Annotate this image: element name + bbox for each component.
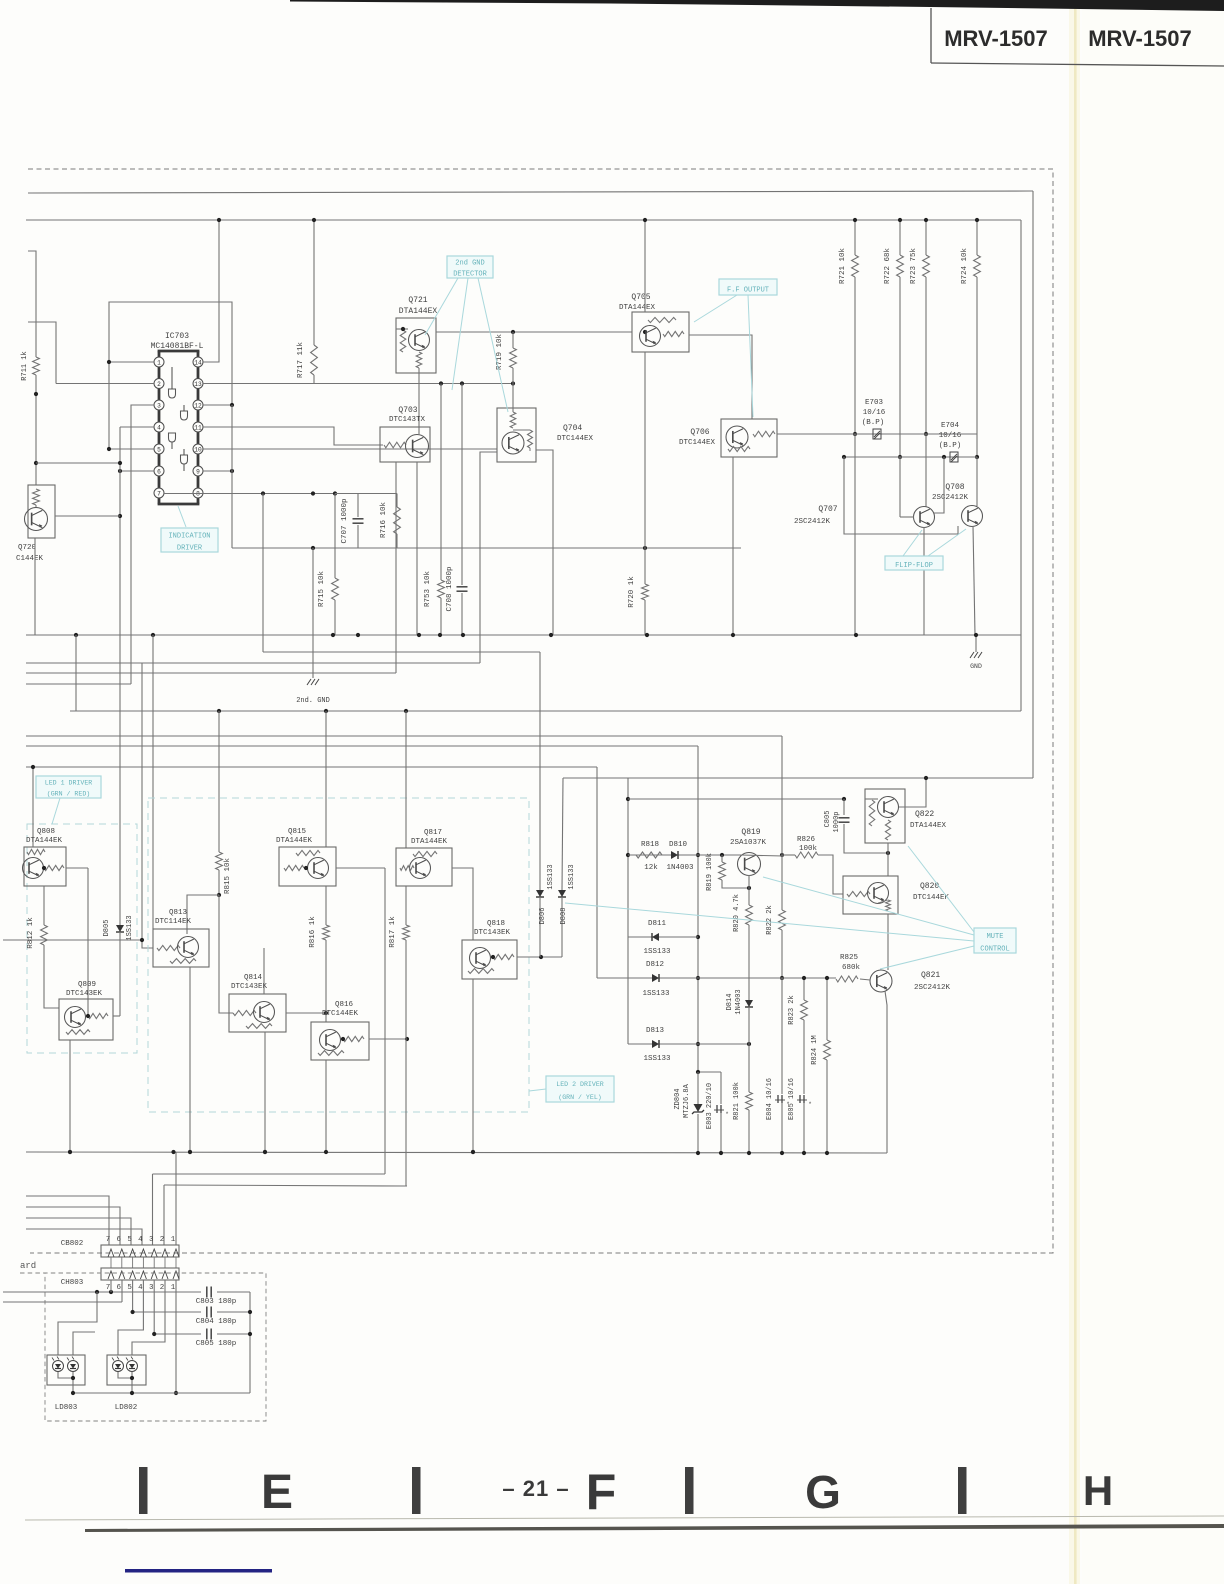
bus y652 [263, 651, 540, 653]
resistor R722 68k [884, 218, 903, 284]
top scan edge black wedge [290, 0, 1224, 11]
IC703 box outline [109, 302, 232, 449]
svg-text:12k: 12k [644, 864, 658, 872]
svg-text:R820 4.7k: R820 4.7k [733, 894, 741, 932]
svg-text:2: 2 [157, 381, 161, 388]
resistor R720 1k [628, 576, 648, 635]
transistor Q721 [409, 330, 430, 351]
gnd detector callout [447, 256, 493, 279]
svg-text:D805: D805 [103, 920, 111, 937]
Q707 cross wire [934, 457, 944, 513]
Q708 emitter [973, 526, 975, 635]
svg-text:C144EK: C144EK [16, 555, 44, 563]
wire Q721 to Q705 [436, 330, 647, 334]
Q808 output [66, 867, 88, 869]
Q703 labels [389, 406, 426, 424]
pin2 riser [163, 1185, 165, 1245]
led2 dashed box [148, 798, 529, 1112]
svg-text:DTA144EX: DTA144EX [619, 304, 656, 312]
vert x628 [626, 778, 630, 1044]
Q809 emitter drop [68, 1040, 72, 1154]
Q822 emitter res [885, 820, 890, 840]
Q818 emitter res [468, 969, 494, 974]
diode D805 1SS133 [103, 915, 134, 1016]
resistor R723 75k [910, 218, 929, 284]
LED LD803 diodes [52, 1357, 79, 1372]
svg-text:CONTROL: CONTROL [980, 945, 1009, 953]
transistor Q819 [738, 853, 761, 876]
wire pin2 to LD802b [132, 1280, 165, 1355]
inner frame right x1033 [1032, 191, 1034, 778]
transistor Q813 [178, 937, 199, 958]
Q820 emitter res [878, 900, 890, 911]
svg-text:F: F [586, 1464, 617, 1520]
Q820 base res [847, 891, 870, 896]
transistor Q816 box [311, 1022, 369, 1060]
wire Q705 out to Q706 [689, 335, 752, 419]
bottom thin rule [25, 1516, 1224, 1520]
Q708 cross wire [844, 457, 958, 534]
D805 to Q809 [113, 1015, 120, 1017]
wire pin11 to Q703 [203, 427, 383, 445]
Q818 collector drop [471, 979, 475, 1154]
svg-text:Q819: Q819 [741, 828, 760, 837]
svg-text:1: 1 [171, 1284, 176, 1292]
diode D812 [642, 961, 670, 998]
vert x698 column [696, 746, 700, 1072]
pin feed y1229 [26, 1229, 142, 1245]
Q814 base res [233, 1010, 256, 1015]
resistor R823 2k [788, 976, 812, 1152]
bead E704 [939, 422, 962, 462]
svg-text:ard: ard [20, 1261, 36, 1271]
svg-text:5: 5 [157, 446, 161, 453]
board edge text [20, 1261, 36, 1271]
gnd right symbol [970, 635, 982, 670]
zone letter F [586, 1464, 617, 1520]
Q721 emitter res [416, 352, 422, 368]
LED LD803 box [47, 1355, 85, 1385]
wire pin7 pin8 common [164, 491, 397, 495]
Q813 emitter drop [188, 967, 192, 1154]
LED LD802 box [107, 1355, 146, 1385]
gnd detector leaders [425, 278, 508, 412]
svg-text:C708 1000p: C708 1000p [446, 566, 454, 611]
connector link wires [111, 1257, 176, 1268]
R722 drop [898, 277, 902, 517]
diode D806 1SS133 [536, 652, 555, 957]
svg-text:F.F OUTPUT: F.F OUTPUT [727, 286, 769, 294]
svg-text:5: 5 [127, 1284, 132, 1292]
transistor Q720 box [28, 485, 55, 538]
svg-text:7: 7 [106, 1236, 111, 1244]
svg-text:R824 1M: R824 1M [811, 1035, 819, 1064]
transistor Q704 box [497, 408, 536, 462]
Q809 emitter res [66, 1030, 90, 1035]
svg-text:DTA144EX: DTA144EX [399, 307, 438, 316]
transistor Q808 box [24, 765, 66, 886]
Q720 emitter drop [34, 538, 36, 635]
transistor Q814 [254, 1002, 275, 1023]
svg-text:Q704: Q704 [563, 424, 582, 433]
Q720 internal resistor [33, 489, 40, 508]
CB802 label [61, 1240, 84, 1248]
rail y635 dots [74, 633, 978, 637]
svg-text:C805: C805 [824, 811, 832, 828]
svg-text:R721 10k: R721 10k [839, 248, 847, 285]
Q814 output [286, 1011, 328, 1015]
svg-text:12: 12 [194, 402, 202, 409]
capacitor C708 1000p [446, 384, 468, 636]
transistor Q815 [308, 858, 329, 879]
Q808 col drop [87, 868, 89, 1016]
svg-text:DTA144EK: DTA144EK [26, 837, 63, 845]
LD803 label [55, 1404, 78, 1412]
vert x142 drop [3, 663, 153, 948]
svg-text:R717 11k: R717 11k [297, 342, 305, 379]
Q820 emitter down [887, 914, 889, 970]
svg-text:R723 75k: R723 75k [910, 248, 918, 285]
svg-text:R812 1k: R812 1k [27, 917, 35, 949]
svg-text:C707 1000p: C707 1000p [341, 498, 349, 543]
Q707 labels [794, 505, 838, 526]
bottom thick rule [85, 1524, 1224, 1532]
svg-text:DTA144EK: DTA144EK [276, 837, 313, 845]
svg-text:R818: R818 [641, 841, 659, 849]
Q721 down to Q703 [418, 368, 420, 434]
Q721 labels [399, 296, 438, 316]
svg-text:2SC2412K: 2SC2412K [794, 518, 831, 526]
pin2 feed elbow [28, 322, 56, 384]
wire y855 cont [741, 855, 783, 856]
resistor R819 100k [706, 853, 751, 891]
Q815 labels [276, 828, 313, 845]
Q705 right res [663, 331, 684, 336]
rail bottom y711 [70, 710, 1021, 712]
svg-text:1SS133: 1SS133 [643, 1055, 671, 1063]
wire pin1 bottom [174, 1280, 178, 1395]
wire FF row2 [842, 455, 977, 459]
svg-text:MRV-1507: MRV-1507 [944, 26, 1048, 51]
wire pin6 y1302 [3, 1280, 122, 1302]
indication driver callout [161, 528, 218, 552]
flip-flop leaders [903, 529, 966, 556]
svg-text:DTC144EK: DTC144EK [913, 894, 950, 902]
svg-text:E703: E703 [865, 399, 884, 407]
transistor Q808 [23, 858, 44, 879]
cap E803 220/10 [706, 1072, 729, 1152]
bus y767 [26, 766, 597, 768]
resistor R815 10k [216, 711, 232, 895]
svg-text:Q821: Q821 [921, 971, 940, 980]
vertical x120 pin4 feed [118, 427, 122, 922]
svg-text:*: * [725, 1111, 729, 1118]
svg-text:6: 6 [117, 1236, 122, 1244]
svg-text:IC703: IC703 [165, 332, 189, 341]
transistor Q809 box [59, 999, 113, 1040]
svg-text:C803 180p: C803 180p [196, 1298, 237, 1306]
transistor Q816 [320, 1030, 341, 1051]
diode D808 1SS133 [558, 778, 576, 957]
R815 junction [187, 893, 221, 934]
svg-text:E804 10/16: E804 10/16 [766, 1078, 774, 1120]
svg-text:Q817: Q817 [424, 829, 442, 837]
resistor R711 1k [21, 351, 39, 485]
inner frame bottom y778 [563, 777, 1033, 779]
connector CH803 [101, 1268, 179, 1292]
svg-text:D812: D812 [646, 961, 664, 969]
zone tick 4 [958, 1467, 967, 1514]
wire y463 [36, 461, 122, 465]
svg-text:2: 2 [160, 1236, 165, 1244]
svg-text:14: 14 [194, 359, 202, 366]
svg-text:DTC143EK: DTC143EK [66, 990, 103, 998]
Q809 right res [86, 1013, 108, 1018]
wire pin2 feed y1185 [164, 1185, 407, 1186]
Q706 lower res [728, 446, 750, 451]
Q704 labels [557, 424, 594, 443]
svg-text:Q706: Q706 [690, 428, 709, 437]
vert x326 [325, 711, 327, 847]
Q814 emitter drop [263, 1032, 267, 1154]
transistor Q813 box [153, 929, 209, 967]
IC703 gate C [169, 433, 176, 442]
IC703 gate A [169, 389, 176, 398]
diode D810 1N4003 [666, 841, 694, 872]
bus y736 [26, 735, 782, 737]
Q720 output wire [55, 515, 120, 517]
diode D813 line [628, 1042, 751, 1046]
svg-text:Q721: Q721 [408, 296, 427, 305]
svg-text:2SC2412K: 2SC2412K [914, 984, 951, 992]
IC703 pins 14-8 [193, 357, 203, 498]
outer dashed border [28, 169, 1053, 1253]
svg-text:GND: GND [970, 663, 982, 670]
svg-text:11: 11 [194, 424, 202, 431]
svg-text:5: 5 [127, 1236, 132, 1244]
resistor R820 4.7k [733, 875, 752, 994]
led2 driver callout [546, 1076, 614, 1102]
svg-text:DTC144EX: DTC144EX [679, 439, 716, 447]
wire y799 [628, 797, 846, 801]
left feed elbow [28, 251, 36, 357]
diode D813 [643, 1027, 671, 1063]
transistor Q820 [868, 883, 889, 904]
transistor Q703 box [380, 427, 430, 462]
svg-text:1: 1 [157, 359, 161, 366]
svg-text:R826: R826 [797, 836, 816, 844]
svg-text:Q818: Q818 [487, 920, 505, 928]
svg-text:3: 3 [149, 1236, 154, 1244]
vertical x263 drop [262, 494, 264, 653]
LD802 label [115, 1404, 138, 1412]
svg-text:100k: 100k [799, 845, 818, 853]
Q814 labels [231, 974, 268, 991]
svg-text:3: 3 [157, 402, 161, 409]
transistor Q721 box [396, 318, 436, 373]
zone letter H [1083, 1467, 1113, 1514]
vert x597 [596, 767, 598, 978]
indication driver leader [178, 506, 186, 527]
header rule vertical [930, 8, 932, 63]
Q822 base entry [865, 798, 878, 800]
svg-text:1SS133: 1SS133 [547, 864, 555, 889]
book fold cream stripe [1069, 0, 1080, 1584]
wire LD803 left top [58, 1292, 97, 1355]
svg-text:1N4003: 1N4003 [735, 989, 743, 1014]
Q813 emitter res [170, 959, 196, 964]
Q705 labels [619, 293, 656, 312]
svg-text:13: 13 [194, 381, 202, 388]
wire pin10 to Q704 [203, 448, 497, 450]
resistor R812 1k [27, 886, 59, 1008]
svg-text:Q815: Q815 [288, 828, 307, 836]
svg-text:(GRN / RED): (GRN / RED) [47, 791, 91, 798]
pin1 riser [175, 1152, 177, 1245]
wire rail to R717 [312, 218, 316, 345]
Q816 emitter res [318, 1051, 344, 1056]
wire pin5 to C804 [131, 1280, 202, 1314]
svg-text:4: 4 [138, 1284, 143, 1292]
wire pin5 elbow [107, 447, 154, 451]
bus y663 [26, 662, 480, 664]
resistor R821 100k [733, 1044, 752, 1152]
resistor R824 1M [811, 976, 830, 1152]
resistor R715 10k [318, 494, 338, 636]
IC703 pins 1-7 [154, 357, 164, 498]
IC703 gate B [181, 405, 188, 420]
Q819 labels [730, 828, 767, 847]
svg-text:DTC143EK: DTC143EK [231, 983, 268, 991]
svg-text:R817 1k: R817 1k [389, 916, 397, 948]
svg-text:1SS133: 1SS133 [126, 915, 134, 940]
svg-text:1: 1 [171, 1236, 176, 1244]
svg-text:DTC143EK: DTC143EK [474, 929, 511, 937]
flip-flop callout [885, 556, 943, 570]
cap E805 label [788, 1078, 796, 1120]
svg-text:C804 180p: C804 180p [196, 1318, 237, 1326]
wire pin13 to R719 bottom [203, 381, 515, 385]
resistor R826 100k [795, 836, 818, 858]
led1 driver callout [36, 776, 101, 798]
wire pin4 elbow [120, 426, 154, 428]
svg-text:1SS133: 1SS133 [643, 948, 671, 956]
svg-text:(B.P): (B.P) [939, 442, 962, 450]
next page blue line [125, 1569, 272, 1573]
led1 driver leader [52, 798, 60, 824]
IC703 internal stubs [172, 367, 184, 471]
wire y777 top [563, 777, 1033, 779]
resistor R724 10k [961, 218, 980, 284]
svg-text:1SS133: 1SS133 [568, 864, 576, 889]
Q817 output [452, 868, 473, 940]
svg-text:D806: D806 [539, 908, 547, 925]
svg-text:CH803: CH803 [61, 1279, 84, 1287]
led1 dashed box [27, 824, 137, 1053]
Q708 labels [932, 483, 969, 502]
svg-text:6: 6 [157, 468, 161, 475]
svg-text:LED 1 DRIVER: LED 1 DRIVER [45, 780, 93, 787]
vert x76 rail link [75, 635, 77, 711]
bottom rail y1152 [26, 1150, 887, 1155]
Q721 internal res [400, 330, 406, 352]
Q814 collector stub [263, 948, 265, 994]
Q813 labels [155, 909, 192, 926]
transistor Q720 [25, 508, 48, 531]
LD803 internal join [58, 1372, 75, 1393]
IC703 body rails [158, 351, 200, 504]
Q703 base res [384, 442, 406, 448]
Q721 base entry [396, 327, 408, 331]
Q808 right res [42, 865, 64, 870]
cap E804 10/16 [766, 978, 790, 1152]
R723 drop [924, 277, 928, 507]
vert x406 upper [405, 711, 407, 848]
svg-text:– 21 –: – 21 – [502, 1476, 569, 1501]
Q707 emitter [923, 527, 925, 635]
cap return vertical [248, 1292, 252, 1393]
led bottom wire [71, 1391, 250, 1395]
capacitor C805 180p [196, 1329, 250, 1349]
Q704 collector res [510, 384, 516, 429]
wire R825 to Q821 [860, 979, 870, 980]
Q706 emitter drop [732, 457, 734, 635]
svg-text:D811: D811 [648, 920, 667, 928]
svg-text:6: 6 [117, 1284, 122, 1292]
svg-text:Q703: Q703 [398, 406, 417, 415]
2nd gnd stub [312, 548, 314, 678]
svg-text:2SA1037K: 2SA1037K [730, 839, 767, 847]
svg-text:Q813: Q813 [169, 909, 188, 917]
svg-text:DTC143TX: DTC143TX [389, 416, 426, 424]
svg-text:LD803: LD803 [55, 1404, 78, 1412]
capacitor C804 180p [196, 1307, 250, 1327]
resistor R716 10k [380, 494, 400, 549]
Q706 labels [679, 428, 716, 447]
Q809 labels [66, 981, 103, 998]
Q813 base res [157, 945, 180, 950]
svg-text:R821 100k: R821 100k [733, 1082, 741, 1120]
wire pin9 right [203, 469, 234, 473]
Q704 right res [513, 430, 533, 451]
main top rail y220 [26, 219, 1021, 221]
svg-text:R815 10k: R815 10k [224, 858, 232, 895]
Q816 labels [322, 1001, 359, 1018]
IC box right vertical x233 [231, 405, 233, 548]
header text MRV-1507 right [1088, 26, 1192, 51]
inner frame line top y192 [28, 191, 1033, 193]
svg-text:DRIVER: DRIVER [177, 544, 203, 552]
Q816 right res [341, 1036, 364, 1041]
FF output callout [719, 279, 777, 295]
svg-text:R825: R825 [840, 954, 859, 962]
connector CB802 [101, 1236, 179, 1257]
wire y494 pin net [335, 493, 397, 495]
R815 down to Q814 [219, 895, 233, 1013]
svg-text:R724 10k: R724 10k [961, 248, 969, 285]
Q816 emitter drop [325, 1060, 327, 1152]
svg-text:10/16: 10/16 [939, 432, 962, 440]
svg-text:1SS133: 1SS133 [642, 990, 670, 998]
resistor R825 680k [836, 954, 860, 982]
transistor Q704 [502, 432, 524, 454]
transistor Q705 box [632, 312, 689, 352]
transistor Q705 [640, 326, 661, 347]
R721 drop [853, 277, 857, 635]
svg-text:4: 4 [157, 424, 161, 431]
svg-text:1000p: 1000p [833, 811, 841, 832]
page number -21- [502, 1476, 569, 1501]
